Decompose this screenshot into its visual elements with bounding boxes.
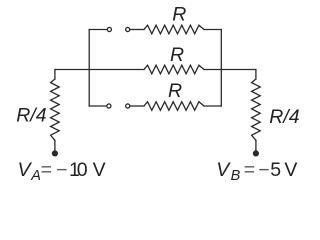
svg-text:B: B bbox=[231, 168, 241, 184]
label VB = -5 V bbox=[216, 159, 297, 184]
svg-text:5: 5 bbox=[270, 159, 281, 181]
svg-text:R: R bbox=[172, 3, 186, 25]
wire middle branch left segment bbox=[55, 69, 144, 71]
resistor R/4 left bbox=[51, 79, 60, 140]
terminal circle bottom-left bbox=[107, 104, 111, 108]
resistor R middle bbox=[144, 65, 204, 74]
svg-text:R/4: R/4 bbox=[16, 105, 47, 127]
svg-text:R: R bbox=[170, 44, 184, 66]
wire left resistor bottom lead bbox=[54, 140, 56, 151]
wire middle branch right segment bbox=[204, 69, 256, 71]
terminal circle top-left bbox=[107, 27, 111, 31]
svg-text:R/4: R/4 bbox=[269, 106, 300, 128]
node terminal VA dot bbox=[52, 150, 58, 156]
svg-text:V: V bbox=[284, 159, 297, 181]
wire right resistor bottom lead bbox=[255, 140, 257, 151]
terminal circle bottom-right bbox=[126, 104, 130, 108]
resistor R top bbox=[144, 25, 204, 34]
wire left resistor top lead bbox=[54, 70, 56, 80]
resistor R bottom bbox=[144, 102, 204, 111]
svg-text:0: 0 bbox=[77, 159, 88, 181]
svg-text:=: = bbox=[244, 159, 255, 181]
svg-text:V: V bbox=[216, 159, 231, 181]
wire right bus vertical bbox=[220, 30, 222, 107]
svg-text:A: A bbox=[30, 168, 41, 184]
wire top branch left segment bbox=[89, 29, 107, 31]
label VA = -10 V bbox=[18, 159, 106, 184]
wire top branch to resistor bbox=[130, 29, 144, 31]
svg-text:V: V bbox=[18, 159, 33, 181]
wire bottom branch left segment bbox=[89, 105, 107, 107]
resistor R/4 right bbox=[252, 79, 261, 140]
svg-text:−: − bbox=[258, 159, 269, 181]
svg-text:V: V bbox=[93, 159, 106, 181]
terminal circle top-right bbox=[126, 27, 130, 31]
svg-text:R: R bbox=[168, 80, 182, 102]
svg-text:=: = bbox=[41, 159, 52, 181]
wire right resistor top lead bbox=[255, 70, 257, 80]
wire top branch right segment bbox=[204, 29, 221, 31]
wire left bus vertical bbox=[88, 30, 90, 107]
wire bottom branch right segment bbox=[204, 105, 221, 107]
wire bottom branch to resistor bbox=[130, 105, 144, 107]
svg-text:−: − bbox=[56, 159, 67, 181]
node terminal VB dot bbox=[253, 150, 259, 156]
